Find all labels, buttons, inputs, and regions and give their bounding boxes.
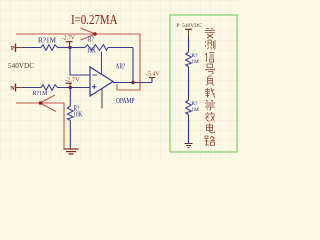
svg-text:R?1M: R?1M bbox=[33, 90, 48, 97]
svg-text:-5.4V: -5.4V bbox=[146, 70, 161, 77]
svg-text:P: P bbox=[11, 45, 15, 52]
负 bbox=[206, 76, 214, 86]
wire P to R1M bbox=[23, 47, 41, 49]
op-amp AR? bbox=[90, 52, 135, 109]
resistor R? 10K (to ground) bbox=[68, 105, 83, 121]
wire to box ground bbox=[188, 115, 190, 144]
svg-text:1M: 1M bbox=[192, 59, 200, 65]
green box (load equivalent circuit) bbox=[170, 15, 237, 152]
wire op-amp output bbox=[113, 79, 152, 83]
svg-text:10K: 10K bbox=[74, 111, 83, 119]
probe -2.7V (node A) bbox=[62, 35, 76, 46]
ground (main) bbox=[64, 149, 79, 154]
wire feedback vertical bbox=[132, 48, 134, 83]
resistor R? 1M (bottom) bbox=[33, 85, 58, 97]
wire N to R1M bbox=[23, 87, 41, 89]
resistor R? 10K (feedback) bbox=[85, 36, 108, 55]
wire node A down to inverting input bbox=[70, 48, 90, 76]
resistor R? 1M (box bottom) bbox=[186, 100, 199, 115]
载 bbox=[205, 88, 215, 98]
wire R10K to feedback corner bbox=[108, 47, 133, 49]
port P 540VDC bbox=[177, 23, 203, 36]
port N bbox=[10, 84, 23, 93]
路 bbox=[205, 136, 215, 146]
port P bbox=[11, 44, 23, 53]
wire R1M to node A bbox=[58, 47, 71, 49]
wire R1M to node B and + input bbox=[58, 87, 91, 89]
受 bbox=[205, 28, 215, 38]
node A junction bbox=[68, 46, 71, 49]
svg-text:I=0.27MA: I=0.27MA bbox=[71, 12, 118, 27]
label 受测信号负载等效电路 (vertical) bbox=[205, 28, 215, 146]
号 bbox=[205, 64, 215, 74]
wire node B down to R10K bbox=[69, 88, 71, 107]
测 bbox=[205, 40, 215, 50]
svg-text:OPAMP: OPAMP bbox=[116, 96, 135, 105]
效 bbox=[205, 112, 215, 122]
probe -5.4V (output) bbox=[146, 70, 161, 79]
output junction bbox=[131, 81, 134, 84]
wire between resistors bbox=[188, 67, 190, 101]
ground (box) bbox=[185, 144, 193, 148]
信 bbox=[206, 53, 215, 63]
node B junction bbox=[69, 86, 72, 89]
svg-text:N: N bbox=[10, 85, 15, 92]
label 540VDC bbox=[8, 62, 34, 70]
等 bbox=[205, 100, 215, 110]
svg-text:R?1M: R?1M bbox=[38, 37, 57, 45]
current path annotation (top, P side) bbox=[16, 34, 140, 90]
svg-text:540VDC: 540VDC bbox=[182, 23, 202, 29]
current arrow (rightward) bbox=[81, 28, 97, 40]
svg-text:-2.7V: -2.7V bbox=[65, 76, 81, 83]
resistor R? 1M (box top) bbox=[186, 52, 199, 67]
resistor R? 1M (top) bbox=[38, 37, 58, 51]
probe -2.7V (node B) bbox=[65, 76, 81, 86]
wire port to R1 bbox=[188, 36, 190, 52]
svg-text:540VDC: 540VDC bbox=[8, 62, 34, 70]
svg-text:R?: R? bbox=[88, 36, 94, 44]
svg-text:AR?: AR? bbox=[116, 62, 126, 71]
svg-text:P: P bbox=[177, 23, 180, 29]
current arrow (leftward) bbox=[39, 95, 56, 112]
wire R10K to ground bbox=[69, 121, 71, 149]
电 bbox=[207, 124, 216, 133]
current path annotation (bottom, N side) bbox=[16, 103, 64, 149]
svg-text:-2.7V: -2.7V bbox=[62, 35, 76, 42]
wire node A to R10K bbox=[70, 47, 85, 49]
svg-text:1M: 1M bbox=[192, 107, 200, 113]
current annotation label I=0.27MA bbox=[71, 12, 118, 27]
